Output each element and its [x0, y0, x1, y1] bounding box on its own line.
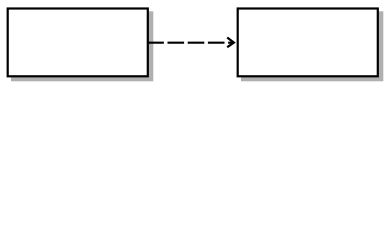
left box	[8, 9, 148, 77]
right box	[238, 9, 378, 77]
arrowhead	[227, 38, 234, 48]
shadow of right box	[241, 11, 383, 81]
dashed wire	[147, 42, 232, 44]
shadow of left box	[11, 11, 153, 81]
